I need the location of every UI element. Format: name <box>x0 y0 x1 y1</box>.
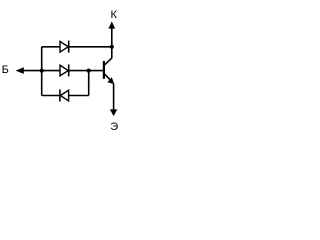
transistor VT1: base bar <box>103 61 105 79</box>
terminal arrow Б (base, pointing left) <box>16 67 24 74</box>
terminal arrow К (collector, pointing up) <box>108 21 115 28</box>
junction dot: base node <box>40 69 44 73</box>
wire: base lead (node Б to left bus) <box>19 70 42 72</box>
diode VD2 (row 2, anode left) <box>60 64 69 76</box>
wire: row 2 horizontal (base branch) <box>42 70 104 72</box>
junction dot: row2/row3 <box>87 69 91 73</box>
transistor VT1: collector diagonal <box>104 58 112 65</box>
svg-text:Э: Э <box>110 121 118 133</box>
diode VD3 (row 3, cathode left) <box>60 90 69 102</box>
wire: left vertical bus <box>41 47 43 96</box>
wire: row 1 horizontal (base to collector diode branch) <box>42 46 112 48</box>
diode VD1 (row 1, anode left) <box>60 41 69 53</box>
wire: collector lead vertical <box>111 24 113 58</box>
svg-text:К: К <box>111 9 118 21</box>
terminal arrow Э (emitter, pointing down) <box>110 109 117 116</box>
wire: right riser (row 2 to row 3) <box>88 71 90 96</box>
svg-text:Б: Б <box>2 64 9 76</box>
wire: row 3 horizontal (antiparallel diode branch) <box>42 95 89 97</box>
transistor VT1: emitter diagonal with arrow <box>104 74 114 84</box>
wire: emitter lead vertical <box>113 83 115 112</box>
junction dot: row1/collector <box>110 45 114 49</box>
